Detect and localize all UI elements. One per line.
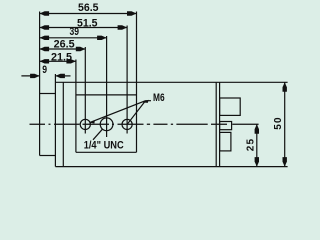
arrow 39 left (40, 36, 50, 40)
arrow 9 right outside (55, 74, 65, 78)
dimension 9 left tail (21, 75, 39, 77)
leader junction arrowhead (142, 100, 149, 103)
centerline dash-dot (30, 123, 228, 125)
svg-text:50: 50 (273, 116, 284, 130)
wire body bottom edge and 25/50 extension (55, 166, 287, 168)
arrow 39 right (97, 36, 107, 40)
arrow 51.5 left (40, 25, 50, 29)
svg-text:1/4" UNC: 1/4" UNC (84, 139, 124, 151)
wire flange right edge / body left face (54, 74, 56, 167)
connector block C (220, 132, 231, 151)
arrow 21.5 left (40, 59, 50, 63)
wire hole1 centerline / 26.5 extension (84, 47, 86, 134)
dimension 56.5 line (40, 13, 137, 15)
wire body inner edge (62, 82, 64, 166)
svg-text:39: 39 (70, 26, 80, 38)
wire body top edge and 50 extension (55, 81, 287, 83)
wire flange bottom edge (40, 155, 56, 157)
leader M6 to hole C3 (127, 101, 145, 125)
hole circle C1 M6 (80, 119, 90, 129)
arrow 25 bottom (255, 157, 259, 167)
wire hole2 centerline / 39 extension (106, 36, 108, 137)
dimension 39 line (40, 37, 107, 39)
dimension 51.5 line (40, 27, 128, 29)
svg-text:25: 25 (245, 138, 256, 152)
dimension 9 right tail (55, 75, 70, 77)
wire body right face line 2 (219, 82, 221, 166)
leader UNC to hole C2 (93, 129, 102, 140)
hole circle C2 1/4 UNC (100, 118, 113, 131)
wire pad left edge / 21.5 extension (75, 60, 77, 153)
leader M6 to hole C1 (90, 101, 145, 123)
arrow 50 bottom (283, 157, 287, 167)
svg-text:51.5: 51.5 (77, 17, 98, 29)
wire flange top edge (40, 93, 56, 95)
svg-text:21.5: 21.5 (51, 52, 72, 64)
arrow 21.5 right (66, 59, 76, 63)
arrow 56.5 right (127, 11, 137, 15)
dimension 21.5 line (40, 60, 76, 62)
leader M6 tail (146, 100, 152, 102)
arrow 25 top (255, 124, 259, 134)
arrow 9 left outside (30, 74, 39, 78)
arrow 26.5 left (40, 47, 50, 51)
svg-text:26.5: 26.5 (54, 39, 75, 51)
connector block B2 (220, 122, 232, 130)
arrow 51.5 right (118, 25, 128, 29)
centerline extension to 25 dimension (232, 123, 258, 125)
dimension 50 line (284, 82, 286, 166)
svg-text:9: 9 (42, 64, 47, 76)
wire pad bottom edge (76, 151, 137, 153)
wire pad top edge (76, 94, 137, 96)
svg-text:M6: M6 (153, 92, 165, 104)
arrow 56.5 left (40, 11, 50, 15)
dimension 25 line (256, 124, 258, 166)
wire datum extension / flange left edge (39, 12, 41, 156)
wire pad right edge / 56.5 extension (136, 12, 138, 153)
wire body right face line 1 (215, 82, 217, 166)
leader arrowhead at hole C1 (90, 121, 95, 124)
dimension 26.5 line (40, 48, 86, 50)
connector block A (220, 98, 241, 115)
arrowheads (30, 11, 287, 166)
svg-text:56.5: 56.5 (78, 2, 99, 14)
arrow 26.5 right (76, 47, 86, 51)
wire hole3 centerline / 51.5 extension (126, 26, 128, 134)
arrow 50 top (283, 82, 287, 92)
hole circle C3 M6 (122, 119, 132, 129)
